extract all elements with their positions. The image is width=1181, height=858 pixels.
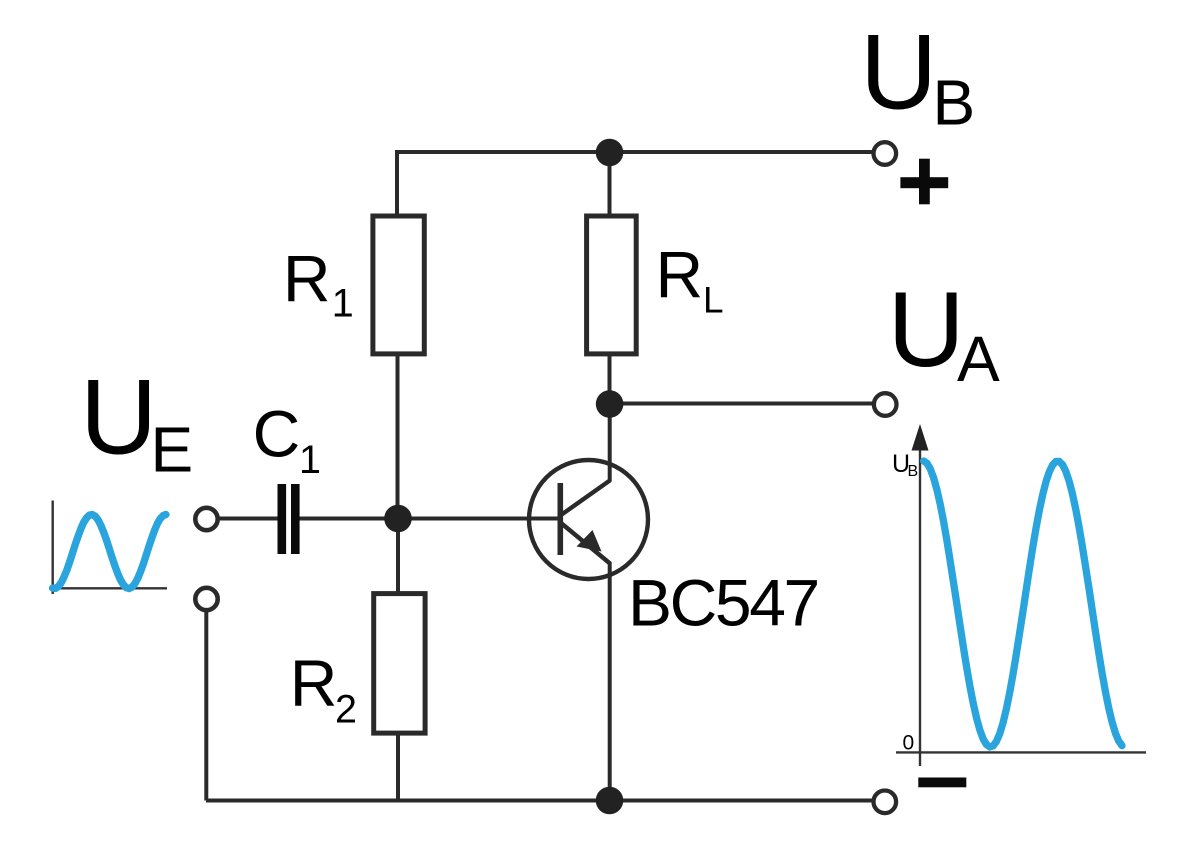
output graph y-axis arrow xyxy=(912,424,929,451)
wire R2 bottom xyxy=(396,734,400,801)
resistor R1 xyxy=(373,216,424,354)
svg-text:U: U xyxy=(860,12,937,132)
wire base node to R2 top xyxy=(396,518,400,593)
svg-text:2: 2 xyxy=(335,688,357,732)
transistor Q1 circle xyxy=(529,460,648,579)
terminal input top xyxy=(195,508,217,530)
svg-text:A: A xyxy=(957,323,1000,395)
wire R1 top xyxy=(395,150,399,215)
junction node collector / UA xyxy=(596,390,624,418)
capacitor C1 plate right xyxy=(291,484,300,554)
svg-text:R: R xyxy=(656,238,704,312)
output sine wave xyxy=(924,461,1122,747)
junction node top (UB rail / RL) xyxy=(596,139,624,167)
capacitor C1 plate left xyxy=(278,484,287,554)
wire emitter vertical xyxy=(608,562,612,801)
svg-text:1: 1 xyxy=(299,438,321,482)
svg-text:R: R xyxy=(283,242,331,316)
input sine wave xyxy=(53,515,166,589)
svg-text:U: U xyxy=(80,357,157,477)
svg-text:B: B xyxy=(908,463,919,480)
resistor R2 xyxy=(374,594,425,734)
terminal UB xyxy=(874,142,897,165)
svg-text:L: L xyxy=(703,280,724,321)
transistor emitter diagonal xyxy=(561,523,610,564)
wire RL bottom to collector node xyxy=(608,354,612,404)
terminal input bottom xyxy=(195,588,217,610)
svg-text:1: 1 xyxy=(332,282,354,326)
svg-text:0: 0 xyxy=(903,732,915,755)
transistor base bar xyxy=(558,483,564,555)
input graph x-axis xyxy=(49,587,167,589)
wire input terminal to capacitor xyxy=(219,517,278,521)
minus symbol xyxy=(918,778,966,788)
wire collector node to UA terminal xyxy=(610,402,875,406)
wire RL top from node xyxy=(608,153,612,215)
svg-text:U: U xyxy=(888,269,965,389)
wire top rail xyxy=(397,150,874,154)
output graph x-axis xyxy=(896,751,1146,753)
terminal UA xyxy=(874,393,897,416)
svg-text:BC547: BC547 xyxy=(628,566,818,640)
plus symbol xyxy=(900,177,948,188)
svg-text:C: C xyxy=(253,397,301,471)
transistor collector diagonal xyxy=(561,480,611,515)
svg-text:E: E xyxy=(151,414,194,486)
transistor emitter arrow xyxy=(577,530,602,552)
wire bottom rail xyxy=(206,799,873,803)
junction node emitter / bottom rail xyxy=(596,787,624,815)
input graph y-axis xyxy=(52,501,54,595)
resistor RL xyxy=(587,216,637,354)
output graph y-axis xyxy=(919,444,921,766)
svg-text:R: R xyxy=(290,646,338,720)
wire capacitor to base xyxy=(299,517,560,521)
wire collector vertical xyxy=(608,403,612,481)
terminal bottom rail xyxy=(874,791,897,814)
wire input terminal 2 drop xyxy=(204,611,208,801)
svg-text:B: B xyxy=(933,67,976,139)
junction node base xyxy=(384,505,412,533)
wire R1 bottom to base node xyxy=(396,354,400,518)
